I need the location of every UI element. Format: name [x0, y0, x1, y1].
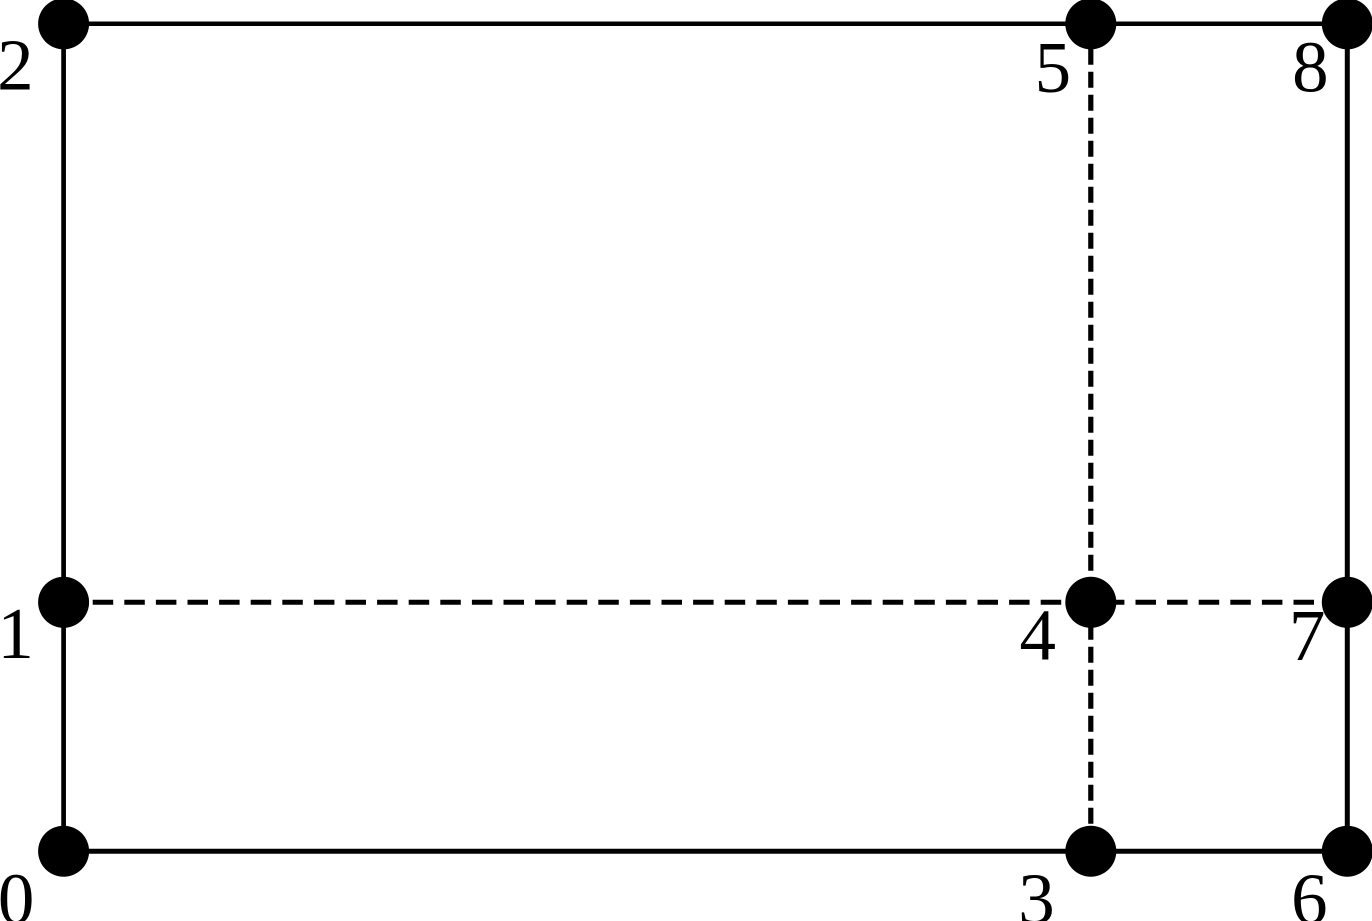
node 1 — [38, 577, 89, 628]
svg-text:1: 1 — [0, 593, 34, 674]
node 6 — [1322, 826, 1372, 877]
svg-text:7: 7 — [1289, 595, 1326, 676]
wire edge 1-4-7 (horizontal dashed) — [64, 600, 1348, 605]
node 5 — [1065, 0, 1116, 49]
wire edge 2-5-8 (top solid) — [64, 22, 1348, 27]
svg-text:2: 2 — [0, 25, 34, 106]
wire edge 5-4-3 (vertical dashed) — [1088, 24, 1093, 851]
node 3 — [1065, 826, 1116, 877]
node 2 — [38, 0, 89, 49]
node 0 — [38, 826, 89, 877]
wire edge 0-1-2 (left solid) — [61, 24, 66, 851]
svg-text:6: 6 — [1291, 859, 1328, 921]
node 7 — [1322, 577, 1372, 628]
node 8 — [1322, 0, 1372, 49]
svg-text:3: 3 — [1018, 859, 1055, 921]
svg-text:4: 4 — [1020, 595, 1057, 676]
svg-text:0: 0 — [0, 859, 34, 921]
wire edge 0-3-6 (bottom solid) — [64, 849, 1348, 854]
svg-text:8: 8 — [1292, 26, 1329, 107]
node 4 — [1065, 577, 1116, 628]
wire edge 6-7-8 (right solid) — [1345, 24, 1350, 851]
svg-text:5: 5 — [1035, 27, 1072, 108]
